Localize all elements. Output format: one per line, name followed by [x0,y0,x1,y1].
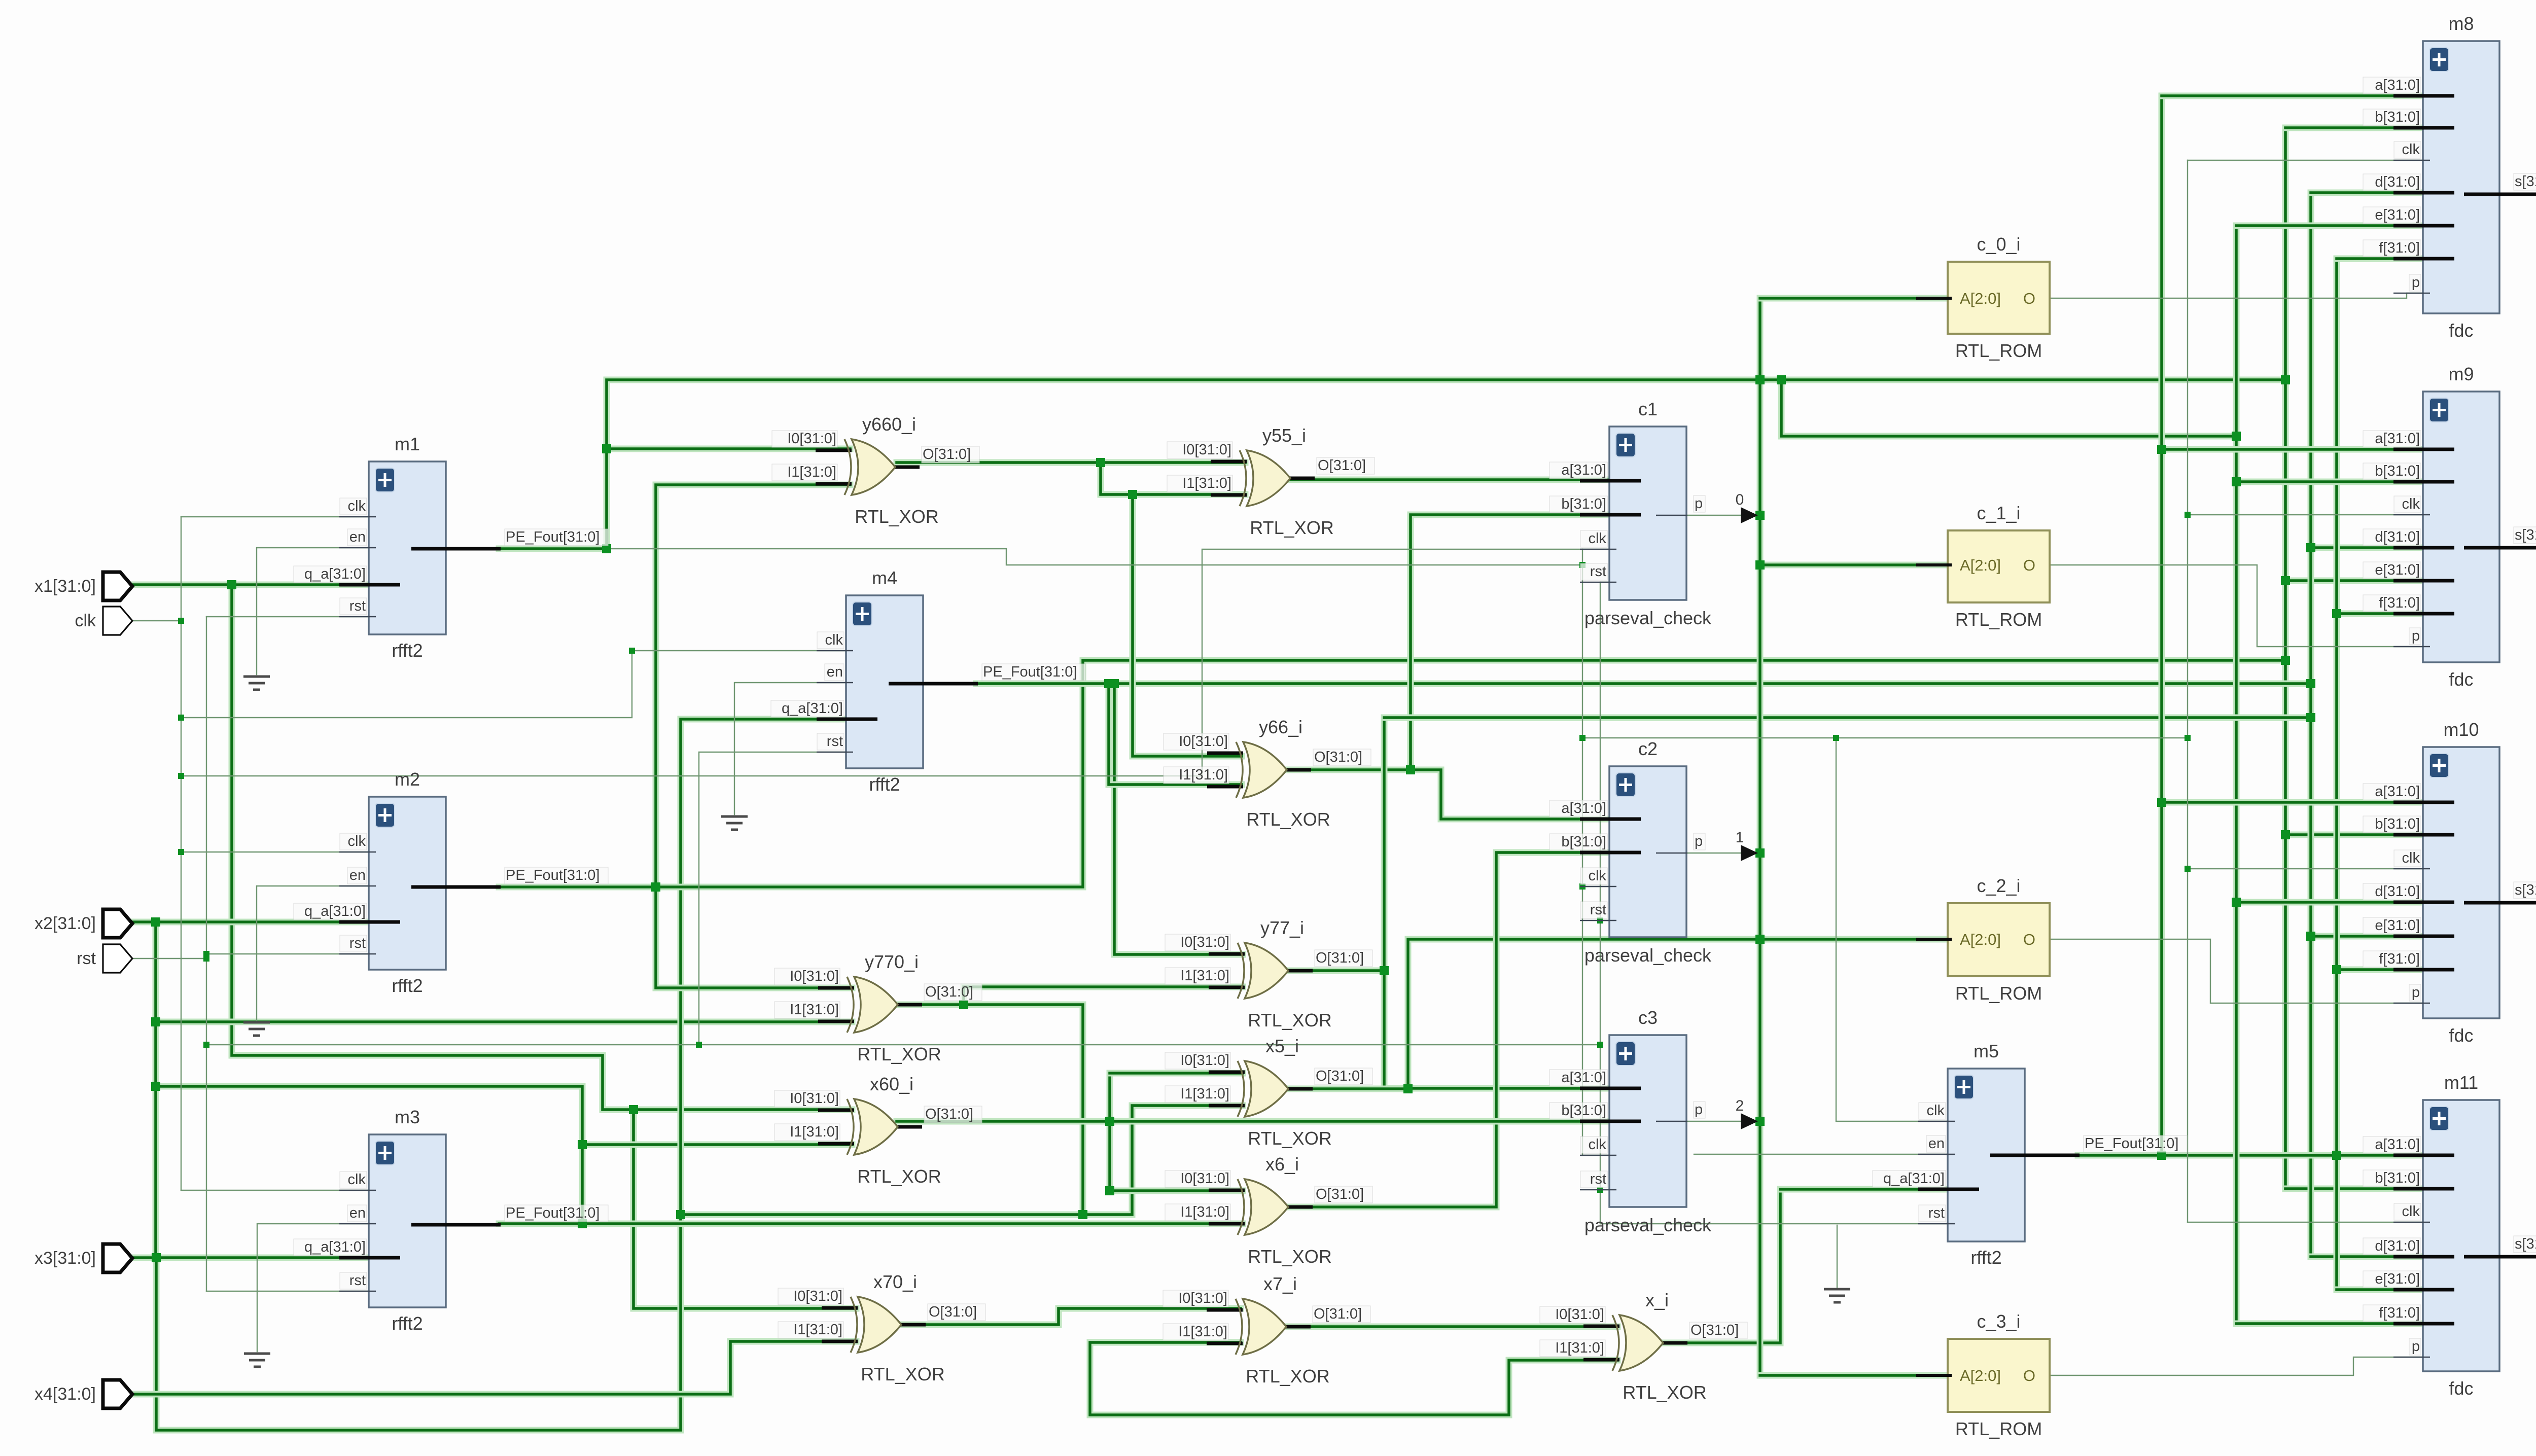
wire x70 out [895,1308,1241,1325]
svg-text:RTL_XOR: RTL_XOR [1250,517,1333,538]
svg-text:RTL_XOR: RTL_XOR [857,1166,941,1187]
wire m10 clk stub [2188,868,2423,869]
wire c_0_i O net [2050,293,2423,298]
rfft2 block m2 [294,769,608,996]
wire x1 riser [232,585,852,1110]
svg-text:a[31:0]: a[31:0] [1561,800,1606,816]
svg-text:clk: clk [348,498,366,514]
svg-text:I0[31:0]: I0[31:0] [790,968,839,984]
svg-text:RTL_XOR: RTL_XOR [1246,1366,1329,1387]
svg-text:I0[31:0]: I0[31:0] [1180,1170,1229,1187]
RTL_XOR gate y660_i [772,414,979,527]
wire f trunk [2334,259,2340,1290]
wire c2 clk stub [1582,886,1609,887]
input port rst [77,944,132,973]
wire x_i out [1662,1189,1780,1343]
wire m5 q_a stub [1780,1186,1948,1193]
wire m10 a stub [2162,799,2423,806]
svg-text:b[31:0]: b[31:0] [2375,463,2420,479]
svg-text:RTL_XOR: RTL_XOR [857,1044,941,1064]
wire x1 bus [130,582,375,588]
wire x2 to y770 I1 [156,1019,852,1025]
svg-text:d[31:0]: d[31:0] [2375,883,2420,900]
wire c clk trunk [1582,549,1583,1155]
svg-text:b[31:0]: b[31:0] [1561,1103,1606,1119]
svg-text:rfft2: rfft2 [392,975,422,996]
wire x60 I1 stub [582,1142,852,1148]
svg-text:p: p [2412,984,2420,1001]
svg-text:q_a[31:0]: q_a[31:0] [304,1239,366,1255]
wire net y77 trunk [1384,718,1609,1088]
wire x5 I0 stub [1110,1070,1243,1077]
svg-text:O: O [2023,931,2035,948]
svg-text:A[2:0]: A[2:0] [1960,290,2001,307]
svg-text:RTL_ROM: RTL_ROM [1955,983,2042,1004]
svg-text:c_3_i: c_3_i [1977,1311,2020,1332]
wire y66 I0 feed [1133,494,1242,756]
svg-text:e[31:0]: e[31:0] [2375,1271,2420,1287]
wire net S2 corridor [156,1086,582,1224]
wire rst corridor [206,1044,1600,1045]
wire m8 e stub [2236,223,2423,229]
wire m1 clk stub [181,516,369,517]
svg-text:a[31:0]: a[31:0] [2375,77,2420,93]
svg-text:c_1_i: c_1_i [1977,503,2020,523]
svg-text:PE_Fout[31:0]: PE_Fout[31:0] [506,1205,600,1221]
svg-text:RTL_XOR: RTL_XOR [855,506,938,527]
svg-text:clk: clk [1589,868,1607,884]
wire c3 rst stub [1600,1189,1609,1190]
svg-text:d[31:0]: d[31:0] [2375,529,2420,545]
svg-text:clk: clk [75,611,96,630]
svg-text:PE_Fout[31:0]: PE_Fout[31:0] [506,529,600,545]
RTL_XOR gate x7_i [1163,1273,1370,1387]
wire rst trunk [206,617,207,1291]
input port x3 [34,1244,132,1272]
wire x6 out [1284,853,1609,1207]
svg-text:x70_i: x70_i [873,1271,917,1292]
svg-text:en: en [1928,1135,1945,1152]
wire y66 I1 feed [1109,684,1242,785]
svg-text:m2: m2 [395,769,420,790]
svg-text:parseval_check: parseval_check [1584,608,1712,628]
svg-text:I1[31:0]: I1[31:0] [1182,475,1231,491]
svg-text:rst: rst [1590,902,1606,918]
wire c1 b feed [1411,515,1609,770]
wire c3 p out [1686,1121,1756,1122]
wire y770 out [893,1005,1083,1215]
svg-text:I0[31:0]: I0[31:0] [1182,442,1231,458]
svg-text:RTL_XOR: RTL_XOR [861,1364,944,1384]
wire m8 a stub [2162,93,2423,99]
svg-text:x60_i: x60_i [870,1074,913,1094]
svg-text:RTL_ROM: RTL_ROM [1955,340,2042,361]
svg-text:clk: clk [1927,1103,1945,1119]
wire m10 f stub [2337,967,2423,973]
svg-text:en: en [349,529,366,545]
wire m11 d stub2 [2311,1254,2423,1260]
wire m8 f stub [2337,256,2423,262]
svg-text:rfft2: rfft2 [1970,1247,2001,1268]
svg-text:RTL_XOR: RTL_XOR [1248,1246,1331,1267]
ground below m3 [244,1354,270,1367]
svg-text:y55_i: y55_i [1262,425,1306,446]
svg-text:s[31:0]: s[31:0] [2515,173,2536,190]
svg-text:e[31:0]: e[31:0] [2375,562,2420,578]
svg-text:I0[31:0]: I0[31:0] [790,1090,839,1107]
svg-text:rst: rst [349,1272,366,1289]
svg-text:I1[31:0]: I1[31:0] [1178,1324,1227,1340]
wire m2 rst stub [206,953,369,954]
svg-text:O[31:0]: O[31:0] [1314,749,1362,765]
svg-text:I1[31:0]: I1[31:0] [790,1002,839,1018]
svg-text:m3: m3 [395,1107,420,1127]
wire m4 PE_Fout [976,681,2311,687]
RTL_XOR gate x60_i [774,1074,982,1187]
svg-text:clk: clk [1589,530,1607,547]
svg-text:clk: clk [1589,1137,1607,1153]
parseval_check block c3 [1549,1007,1712,1235]
wire clk corridor [181,775,1202,776]
svg-text:fdc: fdc [2449,320,2473,341]
svg-text:O[31:0]: O[31:0] [1316,1068,1364,1084]
svg-text:clk: clk [348,833,366,849]
parseval_check block c1 [1549,399,1712,628]
ground below m4 [721,816,748,830]
wire net F1 to e trunk [1781,380,2236,436]
svg-text:m1: m1 [395,434,420,454]
RTL_XOR gate x5_i [1165,1036,1372,1149]
svg-text:s[31:0]: s[31:0] [2515,1236,2536,1252]
wire m9 f stub [2337,611,2423,617]
wire c_3_i O net [2050,1357,2423,1375]
svg-text:a[31:0]: a[31:0] [1561,462,1606,478]
wire m11 clk stub [2188,1222,2423,1223]
svg-text:parseval_check: parseval_check [1584,945,1712,966]
wire m4 en net [734,683,846,814]
wire x1 to x70 I0 [633,1110,856,1308]
RTL_XOR gate y66_i [1164,717,1371,830]
wire c1 rst stub [1600,582,1609,583]
svg-text:c1: c1 [1638,399,1658,419]
wire m3 rst stub [206,1291,369,1292]
svg-text:rst: rst [1928,1205,1945,1221]
svg-text:I1[31:0]: I1[31:0] [1180,1086,1229,1102]
svg-text:x2[31:0]: x2[31:0] [34,914,96,933]
svg-text:RTL_XOR: RTL_XOR [1248,1010,1331,1031]
wire c_1_i O net [2050,565,2423,647]
wire c rst trunk [1600,582,1601,1224]
wire c2 p out [1686,853,1756,854]
svg-text:a[31:0]: a[31:0] [2375,431,2420,447]
svg-text:rst: rst [349,598,366,614]
wire net F2 up [656,485,850,887]
RTL_XOR gate y770_i [774,951,982,1064]
svg-text:en: en [349,867,366,883]
svg-text:y660_i: y660_i [862,414,916,435]
svg-text:clk: clk [348,1171,366,1188]
fdc block m9 [2363,364,2536,690]
svg-text:I0[31:0]: I0[31:0] [1180,934,1229,950]
wire m8 b stub [2285,125,2423,131]
svg-text:I0[31:0]: I0[31:0] [1555,1306,1604,1323]
svg-text:a[31:0]: a[31:0] [1561,1070,1606,1086]
wire m2 clk stub [181,851,369,853]
svg-text:p: p [2412,274,2420,291]
svg-text:x5_i: x5_i [1265,1036,1299,1056]
input port x1 [34,572,132,600]
svg-text:m10: m10 [2443,719,2479,740]
svg-text:O[31:0]: O[31:0] [1316,1186,1364,1202]
wire c_0_i A feed [1760,295,1948,302]
svg-text:x_i: x_i [1645,1290,1669,1310]
wire net F1 to y660 I0 [607,446,850,452]
node p arrow 1016 [1741,507,1758,523]
svg-text:RTL_XOR: RTL_XOR [1623,1382,1706,1403]
wire F1 thin corridor [607,549,1582,565]
wire x4 bus [130,1341,856,1394]
svg-text:I1[31:0]: I1[31:0] [787,464,836,480]
wire c1 clk stub [1582,549,1609,550]
svg-text:e[31:0]: e[31:0] [2375,207,2420,223]
wire c2 rst stub [1600,920,1609,921]
svg-text:b[31:0]: b[31:0] [1561,496,1606,512]
svg-text:I0[31:0]: I0[31:0] [1178,1290,1227,1306]
wire m9 b stub [2236,479,2423,485]
wire m8 d stub [2311,190,2423,196]
svg-text:I1[31:0]: I1[31:0] [790,1124,839,1140]
wire clk drop c blocks [1202,549,1582,776]
wire c_1_i A feed [1760,562,1948,569]
svg-text:I1[31:0]: I1[31:0] [1180,1204,1229,1220]
svg-text:A[2:0]: A[2:0] [1960,1367,2001,1384]
RTL_XOR gate x_i [1540,1290,1747,1403]
svg-text:c_2_i: c_2_i [1977,875,2020,896]
wire m10 d stub [2236,899,2423,906]
svg-text:c_0_i: c_0_i [1977,234,2020,255]
wire c_2_i O net [2050,939,2423,1003]
svg-text:O[31:0]: O[31:0] [929,1304,977,1320]
wire y77 I1 feed [964,987,1243,1005]
svg-text:I0[31:0]: I0[31:0] [787,431,836,447]
svg-text:y66_i: y66_i [1259,717,1302,737]
svg-text:rfft2: rfft2 [392,1313,422,1334]
input port clk [75,607,132,635]
svg-text:s[31:0]: s[31:0] [2515,527,2536,543]
svg-text:I0[31:0]: I0[31:0] [1179,733,1228,750]
wire c1 p out [1686,515,1756,516]
wire y77 out [1285,968,1384,974]
svg-text:fdc: fdc [2449,669,2473,690]
wire m10 b stub2 [2285,832,2423,838]
wire m11 b stub [2285,1186,2423,1192]
wire m2 en net [257,886,369,1020]
wire m9 d stub [2311,545,2423,551]
svg-text:rst: rst [349,935,366,951]
ground below m2 [243,1022,270,1036]
wire m5 en net [1694,1154,1948,1155]
svg-text:O: O [2023,290,2035,307]
wire x3 bottom trunk [156,719,846,1430]
node p arrow 1682 [1741,845,1758,861]
svg-text:s[31:0]: s[31:0] [2515,882,2536,898]
wire y660 out [897,459,1245,466]
input port x2 [34,909,132,938]
svg-text:PE_Fout[31:0]: PE_Fout[31:0] [983,664,1077,680]
wire x7 out [1284,1324,1617,1330]
rfft2 block m1 [294,434,608,661]
wire a trunk [2159,96,2165,1156]
svg-text:I1[31:0]: I1[31:0] [1180,968,1229,984]
svg-text:p: p [1695,833,1703,849]
svg-text:p: p [1695,495,1703,512]
wire b trunk [2282,128,2289,1189]
svg-text:clk: clk [2402,1203,2420,1220]
svg-text:q_a[31:0]: q_a[31:0] [304,566,366,582]
svg-text:O[31:0]: O[31:0] [925,984,973,1000]
svg-text:b[31:0]: b[31:0] [2375,109,2420,125]
fdc block m11 [2363,1072,2536,1399]
ground below m5 [1824,1289,1850,1302]
svg-text:b[31:0]: b[31:0] [2375,1170,2420,1186]
wire m1 PE_Fout [499,546,607,552]
wire m9 a stub [2162,446,2423,453]
svg-text:RTL_ROM: RTL_ROM [1955,609,2042,630]
svg-text:p: p [1695,1102,1703,1118]
wire m9 e stub [2285,578,2423,584]
input port x4 [34,1380,132,1408]
svg-text:d[31:0]: d[31:0] [2375,174,2420,190]
svg-text:O[31:0]: O[31:0] [1316,950,1364,966]
svg-text:PE_Fout[31:0]: PE_Fout[31:0] [506,867,600,883]
wire x5 out [1285,939,1760,1089]
svg-text:O[31:0]: O[31:0] [1318,457,1366,474]
svg-text:q_a[31:0]: q_a[31:0] [782,700,843,717]
svg-text:c3: c3 [1638,1007,1658,1028]
svg-text:x6_i: x6_i [1265,1154,1299,1175]
svg-text:O[31:0]: O[31:0] [925,1106,973,1122]
wire m11 e stub2 [2337,1287,2423,1293]
svg-text:b[31:0]: b[31:0] [2375,816,2420,832]
svg-text:fdc: fdc [2449,1025,2473,1046]
svg-text:c2: c2 [1638,738,1658,759]
fdc block m10 [2363,719,2536,1046]
svg-text:x1[31:0]: x1[31:0] [34,577,96,596]
svg-text:x7_i: x7_i [1263,1273,1297,1294]
svg-text:a[31:0]: a[31:0] [2375,784,2420,800]
svg-text:m8: m8 [2448,13,2474,34]
rfft2 block m3 [294,1107,608,1334]
svg-text:clk: clk [2402,141,2420,158]
wire d trunk [2308,193,2314,1257]
wire m3 clk stub [181,1190,369,1191]
svg-text:clk: clk [2402,496,2420,512]
svg-text:e[31:0]: e[31:0] [2375,917,2420,934]
wire m10 e stub [2311,933,2423,940]
RTL_XOR gate x70_i [778,1271,985,1384]
wire g5 stem [1837,1225,1838,1287]
wire x3 bus [130,1255,375,1261]
svg-text:PE_Fout[31:0]: PE_Fout[31:0] [2085,1135,2178,1152]
svg-text:m4: m4 [872,567,897,588]
svg-text:en: en [827,664,843,680]
wire x5 I0 feed [1110,1073,1243,1191]
svg-text:RTL_XOR: RTL_XOR [1248,1128,1331,1149]
svg-text:I1[31:0]: I1[31:0] [793,1322,842,1338]
wire m9 clk stub [2188,514,2423,515]
wire x5 I1 feed [681,1106,1243,1215]
svg-text:A[2:0]: A[2:0] [1960,556,2001,574]
wire A trunk [1757,298,1764,1375]
svg-text:0: 0 [1736,491,1744,508]
svg-text:I0[31:0]: I0[31:0] [1180,1052,1229,1069]
svg-text:rst: rst [827,733,843,750]
svg-text:f[31:0]: f[31:0] [2379,1305,2420,1321]
wire fdc clk trunk [2187,160,2188,1222]
wire m5 PE_Fout [2078,1152,2423,1159]
RTL_XOR gate y77_i [1165,917,1372,1031]
svg-text:I1[31:0]: I1[31:0] [1555,1340,1604,1356]
svg-text:O[31:0]: O[31:0] [923,446,971,463]
wire net F1 trunk [607,380,2285,549]
svg-text:y770_i: y770_i [865,951,919,972]
svg-text:2: 2 [1736,1097,1744,1114]
svg-text:y77_i: y77_i [1260,917,1304,938]
RTL_ROM block c_1_i [1916,503,2050,630]
wire x7 I1 feed [1090,1342,1617,1415]
svg-text:p: p [2412,1338,2420,1355]
svg-text:d[31:0]: d[31:0] [2375,1238,2420,1254]
wire y55 out [1286,477,1609,483]
wire y77 I0 feed [1114,684,1243,954]
RTL_ROM block c_3_i [1916,1311,2050,1439]
ground below m1 [243,677,270,690]
svg-text:en: en [349,1205,366,1221]
wire clk trunk left [181,517,182,1190]
rfft2 block m4 [771,567,1085,795]
wire clk corridor right [1582,737,2188,738]
svg-text:A[2:0]: A[2:0] [1960,931,2001,948]
svg-text:O: O [2023,1367,2035,1384]
RTL_ROM block c_2_i [1916,875,2050,1004]
svg-text:m11: m11 [2444,1072,2478,1093]
svg-text:fdc: fdc [2449,1378,2473,1399]
svg-text:f[31:0]: f[31:0] [2379,595,2420,611]
svg-text:rfft2: rfft2 [392,640,422,661]
svg-text:clk: clk [2402,850,2420,866]
svg-text:rst: rst [1590,1171,1606,1187]
wire m5 clk feed [1836,738,1948,1121]
svg-text:x4[31:0]: x4[31:0] [34,1384,96,1404]
svg-text:m5: m5 [1974,1041,1999,1061]
wire m3 PE_Fout [499,1221,1243,1227]
svg-text:q_a[31:0]: q_a[31:0] [304,903,366,919]
svg-text:clk: clk [825,632,843,648]
wire rst port net [128,958,206,959]
svg-text:rst: rst [1590,563,1606,580]
wire m4 rst feed [699,752,846,1045]
svg-text:a[31:0]: a[31:0] [2375,1137,2420,1153]
svg-text:p: p [2412,628,2420,644]
RTL_ROM block c_0_i [1916,234,2050,361]
svg-text:1: 1 [1736,829,1744,846]
wire clk port net [128,620,181,621]
wire x2 bus [130,919,375,926]
wire m5 rst stub [1600,1223,1948,1224]
wire m1 en net [257,548,369,674]
wire c_2_i A feed [1760,936,1948,943]
svg-text:x3[31:0]: x3[31:0] [34,1249,96,1268]
